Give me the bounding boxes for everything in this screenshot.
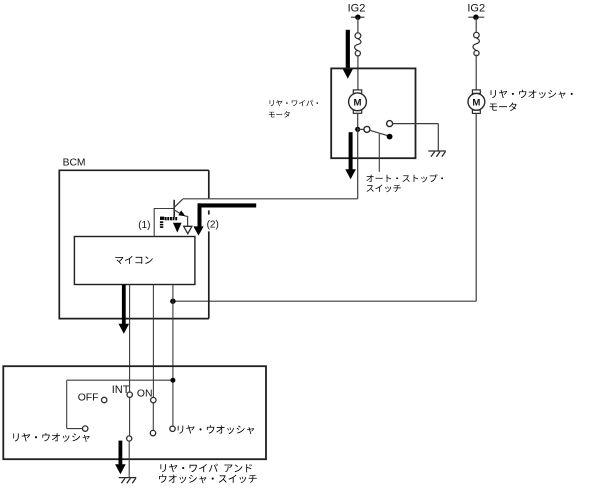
washer contact (left) — [83, 426, 88, 431]
auto-stop switch closed contact (filled) — [387, 134, 393, 140]
svg-text:IG2: IG2 — [467, 3, 485, 15]
junction node below M1 — [355, 127, 360, 132]
transistor Q1 base bar — [173, 200, 175, 218]
current flow arrow (thick) out of auto-stop switch — [349, 132, 353, 170]
label riya-uossha line2 — [490, 103, 517, 111]
wire fuse to motor M1 — [357, 56, 359, 91]
motor M1 (rear wiper motor) — [353, 90, 361, 94]
thick flow arrow into BCM pin (2) — [198, 203, 257, 207]
OFF-branch wire (down, right to washer contact) — [66, 380, 68, 428]
wire IG2 to fuse — [357, 17, 359, 32]
wire microcomputer output 1 (wiper low) — [129, 285, 131, 392]
svg-text:M: M — [354, 97, 362, 108]
label riya-waipa line1 — [270, 100, 319, 106]
rear wiper motor box — [331, 68, 415, 158]
emitter ground triangle (open) — [184, 226, 192, 233]
ON position contact — [151, 397, 156, 402]
fuse F2 — [474, 32, 480, 38]
BCM box — [59, 170, 209, 318]
wire INT common bus — [67, 379, 173, 381]
wire fuse F2 to washer motor M2 — [475, 55, 477, 90]
auto-stop switch open contact — [387, 121, 393, 127]
wiper ground contact — [127, 436, 132, 441]
washer contact (right) — [170, 426, 175, 431]
svg-text:M: M — [472, 97, 480, 108]
fuse F1 (circle-S-circle symbol) — [355, 33, 361, 39]
wire junction to switch pole — [358, 128, 364, 130]
transistor Q1 collector — [174, 199, 183, 208]
node IG2 right: supply tap — [468, 16, 484, 18]
label riya-uossha bottom-right — [178, 425, 254, 434]
chassis ground (switch) — [119, 477, 137, 479]
wire contact to chassis ground — [393, 123, 439, 125]
svg-text:(2): (2) — [207, 219, 219, 230]
svg-text:IG2: IG2 — [348, 3, 366, 15]
label riya-uossha bottom-left — [13, 433, 89, 442]
label uossha-switch — [159, 474, 257, 483]
node IG2 left: supply tap — [351, 16, 365, 18]
wire washer motor M2 down to BCM output node — [475, 113, 477, 301]
svg-text:(1): (1) — [138, 220, 150, 231]
wire microcomputer to transistor base — [153, 209, 155, 237]
svg-text:OFF: OFF — [78, 393, 99, 404]
label riya-waipa line2 — [269, 111, 290, 118]
current flow arrow (thick) into wiper motor — [346, 30, 350, 69]
wire microcomputer output 2 (ON sense) — [152, 285, 154, 398]
auto-stop switch arm — [370, 130, 387, 135]
microcomputer (maikon) box — [74, 237, 194, 285]
label auto-stop line1 — [366, 174, 443, 182]
wire contact to chassis ground below box — [128, 441, 130, 477]
INT position contact — [127, 392, 132, 397]
transistor Q1 emitter with arrow — [174, 210, 181, 214]
thick flow arrow out of microcomputer — [122, 285, 126, 325]
label auto-stop line2 — [367, 185, 401, 193]
wire INT contact to wiper ground contact — [129, 397, 131, 436]
label riya-uossha line1 — [491, 90, 573, 99]
wire IG2 to fuse F2 — [475, 17, 477, 32]
wire ON contact down — [152, 403, 154, 431]
BCM output node to washer motor wire — [170, 299, 175, 304]
OFF position contact — [102, 397, 107, 402]
motor M2 (rear washer motor) — [472, 90, 480, 94]
wire auto-stop junction down and left to BCM transistor collector — [357, 128, 359, 199]
wire microcomputer output 3 (washer sense) — [172, 285, 174, 426]
label riya-waipa-and — [160, 464, 252, 473]
ON lower contact — [150, 430, 155, 435]
auto-stop switch actuator leader line — [378, 134, 380, 172]
rear wiper and washer switch box — [3, 366, 266, 459]
junction node on washer sense wire — [170, 378, 175, 383]
chassis ground (wiper motor) — [428, 150, 446, 152]
dashed signal-flow arrow at pin (1) — [160, 217, 164, 220]
svg-text:ON: ON — [137, 389, 153, 400]
label maikon (microcomputer) — [115, 256, 152, 264]
svg-text:BCM: BCM — [63, 158, 86, 169]
wire motor M1 to auto-stop switch junction — [357, 113, 359, 130]
thick flow arrow to ground — [119, 441, 123, 465]
auto-stop switch pole contact — [364, 126, 370, 132]
